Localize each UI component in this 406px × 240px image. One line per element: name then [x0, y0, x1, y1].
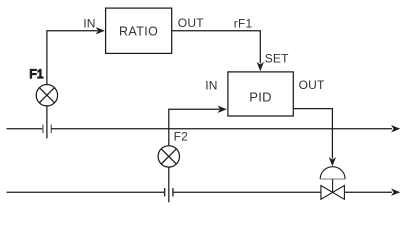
- svg-text:OUT: OUT: [299, 78, 325, 92]
- wire: RATIO OUT across and down to PID SET (with arrowhead): [172, 31, 264, 71]
- wire: PID OUT across and down to valve actuator (with arrowhead): [293, 109, 336, 167]
- block RATIO: [106, 8, 172, 53]
- svg-text:IN: IN: [205, 79, 217, 93]
- pipe: lower process line, right segment (with arrowhead): [344, 189, 400, 196]
- orifice plate on lower pipe: [165, 188, 173, 196]
- block PID: [228, 72, 293, 116]
- wire: F2 sensor up and across to PID IN (with arrowhead): [169, 106, 227, 146]
- pipe: lower process line, middle segment: [173, 191, 321, 193]
- control valve actuator dome: [320, 167, 345, 193]
- pipe: lower process line, left segment: [7, 191, 165, 193]
- svg-text:F2: F2: [174, 130, 189, 144]
- wire: F2 stem down through orifice on lower pipe: [168, 167, 170, 202]
- svg-text:F1: F1: [29, 67, 44, 81]
- flow sensor F1: [36, 85, 57, 106]
- wire: F1 sensor up to RATIO IN (with arrowhead): [47, 27, 105, 84]
- svg-text:PID: PID: [249, 90, 272, 105]
- svg-text:SET: SET: [265, 52, 289, 66]
- wire: F1 stem down through orifice on upper pipe: [46, 106, 48, 138]
- svg-text:RATIO: RATIO: [119, 24, 158, 38]
- flow sensor F2: [158, 146, 179, 167]
- control valve body (bowtie): [321, 186, 345, 200]
- svg-text:OUT: OUT: [178, 16, 204, 30]
- pipe: upper process line, left segment: [7, 128, 43, 130]
- orifice plate on upper pipe: [43, 125, 51, 134]
- svg-text:rF1: rF1: [234, 17, 253, 31]
- svg-text:IN: IN: [83, 16, 95, 30]
- pipe: upper process line, right segment (with arrowhead): [51, 125, 400, 132]
